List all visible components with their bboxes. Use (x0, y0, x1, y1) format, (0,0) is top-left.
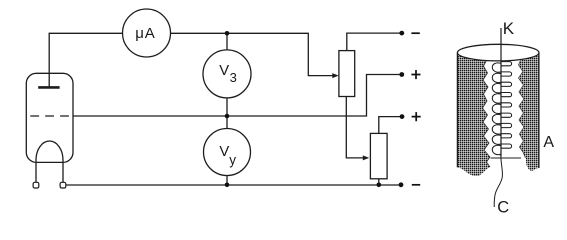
svg-text:μA: μA (135, 25, 155, 42)
svg-text:y: y (229, 153, 236, 168)
svg-text:V: V (219, 63, 229, 79)
svg-text:A: A (543, 134, 554, 151)
svg-text:3: 3 (230, 70, 237, 85)
svg-text:V: V (219, 144, 229, 160)
svg-text:K: K (503, 19, 515, 38)
svg-text:C: C (497, 199, 509, 216)
